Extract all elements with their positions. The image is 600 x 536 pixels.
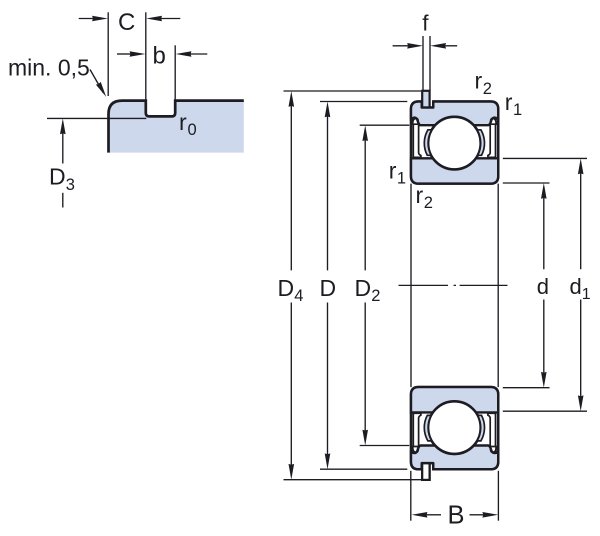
svg-text:D: D <box>278 275 295 301</box>
svg-text:2: 2 <box>371 287 380 305</box>
svg-text:B: B <box>448 502 465 530</box>
svg-text:D: D <box>320 275 337 301</box>
svg-text:min. 0,5: min. 0,5 <box>8 55 90 81</box>
svg-text:b: b <box>153 42 166 69</box>
svg-text:C: C <box>118 9 135 36</box>
svg-text:r: r <box>389 157 397 183</box>
svg-text:1: 1 <box>397 170 406 188</box>
svg-text:0: 0 <box>188 121 197 139</box>
svg-text:r: r <box>416 182 424 208</box>
svg-text:r: r <box>179 109 187 135</box>
svg-text:f: f <box>422 10 429 35</box>
svg-text:1: 1 <box>582 286 591 303</box>
svg-text:r: r <box>475 68 483 94</box>
svg-text:3: 3 <box>66 176 75 194</box>
svg-text:D: D <box>355 275 372 301</box>
svg-text:1: 1 <box>513 101 522 119</box>
svg-text:r: r <box>505 89 513 115</box>
svg-text:d: d <box>570 274 582 299</box>
svg-text:2: 2 <box>424 194 433 212</box>
svg-text:d: d <box>537 274 549 299</box>
svg-text:2: 2 <box>483 80 492 98</box>
svg-text:4: 4 <box>294 287 303 305</box>
svg-text:D: D <box>49 163 66 189</box>
